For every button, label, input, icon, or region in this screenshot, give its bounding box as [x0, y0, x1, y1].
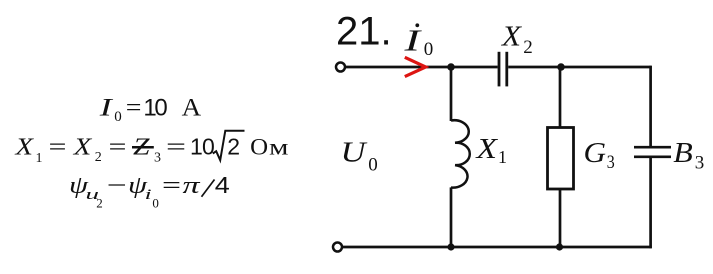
given values text line 2: X1 = X2 = Z3 = 10*sqrt(2) Om [14, 131, 288, 166]
svg-text:π: π [183, 173, 201, 199]
wire G3 branch lower [559, 189, 562, 247]
svg-text:3: 3 [154, 151, 161, 166]
svg-text:0: 0 [114, 109, 122, 125]
wire X1 branch upper [450, 67, 453, 121]
label G3 [584, 137, 615, 173]
wire B3 branch lower [649, 158, 652, 248]
svg-text:1: 1 [36, 151, 43, 166]
wire B3 branch upper (right side) [649, 66, 652, 147]
label B3 [673, 137, 704, 174]
svg-text:2: 2 [227, 133, 240, 159]
inductor X1 [451, 120, 470, 187]
node junction top B (G3 branch) [557, 63, 565, 71]
svg-text:4: 4 [215, 172, 230, 198]
current label I0 (dotted phasor) [403, 23, 433, 61]
label X2 [501, 20, 533, 57]
svg-text:−: − [107, 173, 127, 199]
svg-text:I: I [98, 95, 114, 122]
current direction arrow (red) [405, 57, 426, 76]
svg-text:21.: 21. [336, 10, 392, 54]
svg-text:0: 0 [202, 133, 215, 159]
voltage label U0 [341, 137, 378, 176]
svg-text:1: 1 [190, 133, 203, 159]
capacitor B3 [634, 147, 671, 157]
terminal (input, bottom left) [333, 243, 342, 252]
svg-text:=: = [49, 135, 67, 161]
wire top left segment [346, 66, 498, 69]
svg-text:3: 3 [607, 152, 615, 173]
svg-text:2: 2 [95, 150, 102, 165]
svg-text:=: = [166, 135, 186, 161]
terminal (input, top left) [336, 63, 345, 72]
svg-text:X: X [14, 135, 34, 161]
wire G3 branch upper [559, 67, 562, 128]
svg-text:2: 2 [96, 196, 103, 211]
svg-text:A: A [182, 95, 202, 122]
wire top right segment [508, 66, 652, 69]
conductance G3 (box) [548, 128, 574, 190]
label X1 [475, 133, 507, 167]
svg-text:0: 0 [152, 196, 159, 211]
svg-text:I: I [403, 23, 423, 58]
svg-text:X: X [73, 135, 93, 161]
svg-text:м: м [269, 134, 289, 160]
svg-text:0: 0 [154, 95, 167, 122]
svg-text:О: О [250, 134, 268, 160]
svg-text:3: 3 [695, 153, 705, 174]
wire X1 branch lower [450, 187, 453, 247]
node junction top A (X1 branch) [447, 63, 455, 71]
svg-text:X: X [475, 133, 498, 165]
svg-text:U: U [341, 137, 368, 169]
svg-text:B: B [673, 137, 693, 169]
wire bottom [343, 246, 652, 249]
svg-text:X: X [501, 20, 522, 52]
svg-text:2: 2 [523, 37, 533, 58]
svg-text:=: = [109, 135, 127, 161]
svg-text:0: 0 [368, 155, 378, 176]
given values text line 1: I0 = 10 A [98, 95, 201, 125]
node junction bottom B (G3 branch) [556, 243, 563, 250]
svg-text:i: i [145, 187, 152, 203]
svg-text:=: = [126, 95, 142, 122]
svg-text:=: = [162, 173, 181, 199]
capacitor X2 [499, 52, 507, 87]
given values text line 3: psi_u2 - psi_i0 = pi/4 [69, 172, 230, 211]
svg-text:0: 0 [424, 39, 434, 60]
node junction bottom A (X1 branch) [447, 243, 454, 250]
svg-text:1: 1 [498, 147, 507, 167]
svg-text:G: G [584, 137, 607, 169]
